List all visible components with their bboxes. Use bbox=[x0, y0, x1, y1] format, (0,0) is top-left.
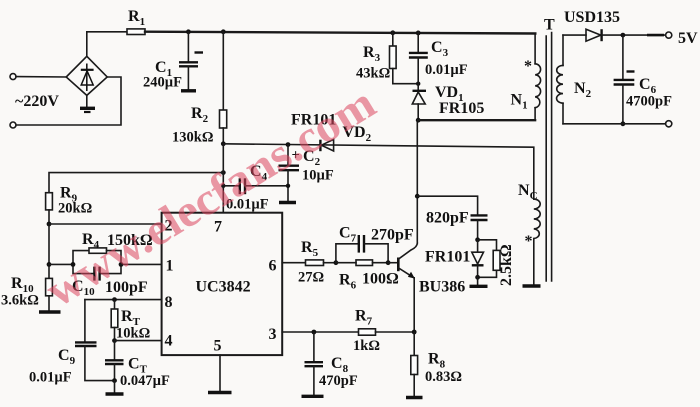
svg-text:T: T bbox=[544, 17, 555, 34]
node divider mid bbox=[47, 262, 52, 267]
resistor R8 bbox=[411, 332, 462, 396]
AC input terminal lower bbox=[10, 122, 16, 128]
svg-text:100Ω: 100Ω bbox=[362, 271, 399, 288]
svg-text:FR101: FR101 bbox=[425, 249, 470, 266]
svg-text:3: 3 bbox=[269, 326, 277, 343]
node R3 top bbox=[390, 30, 395, 35]
svg-text:820pF: 820pF bbox=[426, 210, 469, 227]
svg-text:470pF: 470pF bbox=[319, 373, 358, 389]
capacitor C9 bbox=[29, 300, 115, 386]
resistor R3 bbox=[356, 32, 420, 86]
node C3 top bbox=[416, 31, 421, 36]
node collector snubber bbox=[415, 194, 420, 199]
transformer core bbox=[544, 17, 555, 282]
svg-text:USD135: USD135 bbox=[564, 9, 620, 26]
wire pin1 bbox=[121, 263, 162, 265]
winding NC bbox=[518, 182, 540, 285]
node snubber top bbox=[475, 237, 480, 242]
ground NC bbox=[523, 284, 541, 287]
wire pin3 bbox=[282, 331, 358, 333]
svg-text:5: 5 bbox=[214, 338, 222, 355]
svg-text:10kΩ: 10kΩ bbox=[116, 326, 150, 342]
node C6 top bbox=[621, 33, 626, 38]
node CT bottom bbox=[112, 378, 117, 383]
node C8 top bbox=[312, 330, 317, 335]
node C6 bottom bbox=[621, 121, 626, 126]
node VCC junction bbox=[221, 141, 226, 146]
transistor Q1 BU386 bbox=[388, 196, 465, 332]
resistor R1 bbox=[127, 8, 145, 35]
winding N2 bbox=[557, 35, 592, 124]
svg-text:0.01µF: 0.01µF bbox=[425, 62, 468, 78]
capacitor C3 bbox=[409, 32, 468, 91]
watermark bbox=[37, 77, 384, 317]
svg-text:1kΩ: 1kΩ bbox=[353, 338, 380, 354]
resistor R10 bbox=[1, 275, 52, 311]
top rail wire bbox=[145, 32, 535, 34]
resistor RT bbox=[111, 300, 150, 342]
ground C1 bbox=[181, 89, 196, 92]
node C2 top bbox=[286, 142, 291, 147]
AC input terminal upper bbox=[10, 74, 16, 80]
diode USD135 bbox=[563, 9, 666, 41]
resistor R4 with C10 parallel loop bbox=[71, 231, 153, 298]
wire tap to R9 bbox=[49, 173, 223, 193]
winding N1 bbox=[511, 34, 541, 121]
ground CT bbox=[106, 381, 124, 394]
node R6 left bbox=[334, 260, 339, 265]
node R2 top bbox=[221, 29, 226, 34]
svg-text:UC3842: UC3842 bbox=[196, 279, 251, 296]
svg-text:6: 6 bbox=[269, 258, 277, 275]
node VD1 anode N1 bbox=[416, 118, 421, 123]
resistor 2.5k snubber bbox=[478, 240, 515, 286]
wire bridge top to R1 bbox=[87, 32, 127, 57]
capacitor C1 bbox=[143, 32, 203, 91]
svg-text:4: 4 bbox=[165, 333, 173, 350]
node feedback tap bbox=[221, 170, 226, 175]
resistor R5 bbox=[298, 239, 336, 286]
wire pin2 bbox=[49, 223, 162, 225]
svg-text:130kΩ: 130kΩ bbox=[172, 130, 213, 146]
ground R10 bbox=[39, 310, 61, 313]
node R9 bottom bbox=[47, 222, 52, 227]
wire pin7 vertical bbox=[222, 144, 224, 213]
label ~220V bbox=[15, 93, 59, 110]
node base bbox=[386, 260, 391, 265]
diode VD2 FR101 bbox=[291, 112, 372, 152]
wire pin4 bbox=[115, 340, 162, 342]
IC U1 UC3842 bbox=[162, 213, 283, 355]
svg-text:0.01µF: 0.01µF bbox=[29, 370, 72, 386]
svg-text:2.5kΩ: 2.5kΩ bbox=[498, 244, 515, 286]
wire pin6 bbox=[282, 262, 305, 264]
wire collector to N1 bbox=[416, 120, 418, 196]
capacitor CT bbox=[105, 341, 170, 389]
svg-text:*: * bbox=[525, 233, 533, 250]
ground C2 C4 bbox=[279, 201, 296, 204]
wire AC lower to bridge bbox=[16, 77, 121, 125]
svg-text:0.83Ω: 0.83Ω bbox=[425, 369, 462, 385]
wire N2 bottom to output bbox=[563, 123, 666, 125]
capacitor C8 bbox=[305, 332, 358, 395]
node RT top bbox=[112, 297, 117, 302]
svg-text:5V: 5V bbox=[678, 30, 698, 47]
svg-text:10µF: 10µF bbox=[302, 168, 334, 184]
capacitor C7 branch bbox=[336, 225, 414, 263]
diode VD1 FR105 bbox=[412, 84, 484, 120]
capacitor C6 bbox=[614, 35, 672, 124]
output terminal lower bbox=[666, 121, 672, 127]
wire node to R4 loop bbox=[49, 263, 73, 265]
svg-text:240µF: 240µF bbox=[143, 75, 182, 91]
node C1 top bbox=[186, 29, 191, 34]
svg-text:3.6kΩ: 3.6kΩ bbox=[1, 293, 39, 309]
resistor R6 bbox=[336, 260, 399, 292]
svg-text:43kΩ: 43kΩ bbox=[356, 66, 390, 82]
output terminal 5V bbox=[666, 30, 698, 47]
wire N1 bottom bbox=[418, 119, 535, 121]
svg-text:270pF: 270pF bbox=[371, 227, 414, 244]
resistor R2 bbox=[172, 32, 227, 146]
svg-text:*: * bbox=[524, 58, 532, 75]
ground R8 bbox=[406, 396, 423, 399]
node pin4 bbox=[112, 338, 117, 343]
ground snubber bbox=[470, 277, 488, 286]
capacitor 820pF bbox=[417, 196, 487, 240]
svg-text:4700pF: 4700pF bbox=[626, 94, 672, 110]
svg-text:0.047µF: 0.047µF bbox=[120, 373, 170, 389]
ground below bridge bbox=[80, 95, 95, 112]
svg-text:1: 1 bbox=[166, 258, 174, 275]
resistor R7 bbox=[353, 308, 414, 355]
node C4 tap bbox=[221, 184, 225, 188]
capacitor C4 bbox=[223, 163, 290, 213]
svg-text:20kΩ: 20kΩ bbox=[58, 201, 92, 217]
svg-text:BU386: BU386 bbox=[419, 279, 465, 296]
node emitter sense bbox=[412, 330, 417, 335]
ground C8 bbox=[302, 395, 324, 398]
wire pin8 bbox=[85, 299, 162, 301]
bridge rectifier bbox=[66, 56, 107, 95]
node snubber bottom bbox=[475, 275, 480, 280]
diode FR101 snubber bbox=[425, 240, 484, 277]
resistor R9 bbox=[46, 185, 93, 225]
svg-text:8: 8 bbox=[165, 294, 173, 311]
wire AC upper to bridge bbox=[16, 76, 66, 78]
capacitor C2 bbox=[279, 145, 334, 201]
svg-text:~220V: ~220V bbox=[15, 93, 59, 110]
wire R9 to R10 bbox=[48, 224, 50, 278]
svg-text:27Ω: 27Ω bbox=[298, 270, 324, 286]
wire VCC line to NC top bbox=[223, 144, 534, 199]
svg-text:FR105: FR105 bbox=[439, 100, 484, 117]
wire pin5 ground bbox=[208, 355, 232, 392]
